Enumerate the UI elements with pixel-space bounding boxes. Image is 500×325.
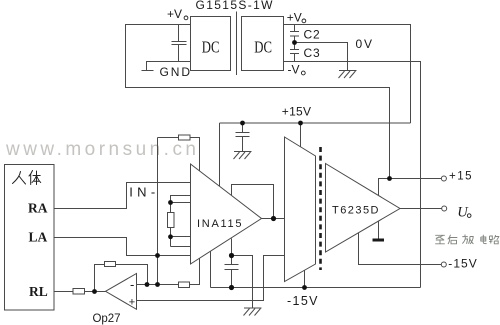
svg-text:+15V: +15V bbox=[282, 105, 311, 119]
wire REF pin down through resistor to op27 minus bbox=[190, 259, 200, 285]
capacitor decoupling stems bbox=[242, 123, 244, 152]
wire iso-ground tap to bottom rail bbox=[210, 252, 212, 288]
wire RL line bbox=[55, 291, 106, 293]
resistor REF bbox=[179, 282, 190, 288]
svg-text:GND: GND bbox=[160, 65, 191, 79]
svg-text:-15V: -15V bbox=[448, 257, 477, 271]
svg-text:U: U bbox=[457, 204, 469, 220]
capacitor C1 plates bbox=[172, 42, 187, 45]
node output cap top bbox=[229, 253, 234, 258]
resistor RL bbox=[73, 289, 85, 295]
wire +15V rail bbox=[220, 122, 411, 124]
wire INA115 output to trapezoid bbox=[262, 218, 285, 220]
node RL / op27 output bbox=[92, 289, 97, 294]
node LA / IN- vertical bbox=[155, 253, 160, 258]
resistor feedback top bbox=[179, 135, 191, 140]
svg-text:+V: +V bbox=[287, 10, 302, 24]
svg-text:LA: LA bbox=[29, 230, 48, 245]
wire trapezoid V+ supply pin bbox=[300, 123, 302, 147]
svg-text:C3: C3 bbox=[304, 46, 321, 60]
ground hatched (0V) bbox=[339, 71, 357, 79]
svg-text:RA: RA bbox=[28, 201, 48, 216]
svg-text:-15V: -15V bbox=[287, 294, 318, 308]
wire T6235D +15 supply line bbox=[379, 179, 442, 196]
wire long vertical IN- net bbox=[157, 138, 159, 285]
node trapezoid -V / rail bbox=[302, 285, 307, 290]
wire DC2 +Vo output to right and down to +15V rail bbox=[284, 25, 411, 124]
dashed isolation barrier bbox=[319, 147, 322, 270]
node minus line / feedback bbox=[145, 282, 150, 287]
svg-text:DC: DC bbox=[202, 39, 220, 57]
svg-text:www.mornsun.cn: www.mornsun.cn bbox=[5, 139, 196, 160]
isolation trapezoid bbox=[285, 137, 316, 282]
capacitor C1 input cap stems bbox=[178, 25, 180, 62]
label 至后放电路 (hand strokes) bbox=[435, 235, 499, 245]
node INA output / sense bbox=[271, 216, 276, 221]
wire feedback top rail with resistor bbox=[158, 138, 200, 172]
wire RA to IN- pin bbox=[55, 183, 191, 209]
svg-text:-: - bbox=[130, 277, 134, 292]
svg-text:IN-: IN- bbox=[129, 184, 155, 199]
wire bottom iso rail bbox=[211, 287, 421, 289]
wire op27 minus line bbox=[137, 284, 179, 286]
ground hatched (iso) bbox=[244, 308, 262, 316]
node minus line / IN- vertical bbox=[155, 282, 160, 287]
node rail trapezoid supply bbox=[298, 121, 303, 126]
wire INA115 V+ supply pin bbox=[219, 123, 221, 187]
wire T6235D output Uo bbox=[400, 208, 442, 210]
node RG top bbox=[168, 200, 173, 205]
后 bbox=[448, 235, 458, 244]
DC converter box 1 bbox=[191, 17, 231, 71]
ground bar T6235D (solid) bbox=[373, 239, 385, 242]
wire 0V from C2/C3 midpoint to ground bbox=[295, 43, 348, 71]
wire +V input loop (DC1 +Vo left, down, across, down to +15 node) bbox=[126, 25, 390, 179]
至 bbox=[435, 235, 445, 244]
wire RG top stubs bbox=[171, 196, 191, 203]
node C2/C3 midpoint bbox=[292, 40, 297, 45]
wire sense feedback loop bbox=[232, 185, 274, 219]
capacitor C3 plates bbox=[290, 50, 299, 54]
wire cap top to ground stem bbox=[232, 256, 253, 309]
wire T6235D -15V line bbox=[359, 233, 442, 265]
op-amp Op27 triangle bbox=[106, 274, 137, 310]
svg-text:C2: C2 bbox=[304, 28, 321, 42]
svg-text:Op27: Op27 bbox=[93, 313, 121, 325]
terminal +15 bbox=[441, 176, 446, 181]
node output cap bottom / rail bbox=[229, 285, 234, 290]
ground GND bar bbox=[142, 70, 154, 72]
wire GND lead of DC1 bbox=[147, 62, 191, 71]
放 bbox=[462, 235, 473, 244]
capacitor decoupling plates bbox=[236, 133, 250, 137]
svg-text:G1515S-1W: G1515S-1W bbox=[196, 0, 274, 12]
wire RG stems bbox=[170, 203, 172, 247]
路 bbox=[489, 235, 499, 244]
svg-text:RL: RL bbox=[29, 284, 48, 299]
wire DC2 -Vo output to right and down to -15V iso rail bbox=[284, 62, 421, 288]
op-amp T6235D triangle bbox=[326, 164, 401, 253]
svg-text:-V: -V bbox=[288, 62, 300, 76]
human body box 人体 bbox=[5, 165, 55, 311]
terminal circles bbox=[441, 176, 446, 267]
capacitor C2 plates bbox=[290, 32, 299, 37]
svg-text:+V: +V bbox=[167, 7, 182, 21]
node +15 line bbox=[387, 176, 392, 181]
wire op27 feedback loop with resistor bbox=[95, 265, 148, 292]
wire RG bottom stubs bbox=[171, 237, 191, 247]
svg-text:DC: DC bbox=[254, 39, 272, 57]
node RG bottom bbox=[168, 234, 173, 239]
电 bbox=[481, 235, 487, 244]
svg-text:+15: +15 bbox=[449, 171, 472, 183]
wire trapezoid -V pin bbox=[304, 270, 306, 288]
wire op27 plus line to trapezoid bbox=[137, 256, 285, 301]
DC converter box 2 bbox=[242, 17, 284, 71]
svg-text:0V: 0V bbox=[356, 37, 373, 51]
wire LA to IN+ pin bbox=[55, 238, 191, 256]
svg-text:+: + bbox=[129, 296, 135, 308]
terminal -15V bbox=[441, 262, 446, 267]
op-amp INA115 triangle bbox=[191, 164, 262, 264]
node rail decoupling cap bbox=[240, 121, 245, 126]
capacitor C2 stems bbox=[294, 25, 296, 43]
capacitor output filter plates bbox=[225, 265, 239, 270]
wire output cap tap bbox=[231, 239, 233, 256]
terminal Uo bbox=[442, 206, 447, 211]
ground hatched (decoupling) bbox=[234, 152, 252, 160]
capacitor C3 stems bbox=[294, 43, 296, 62]
transformer bar bbox=[236, 12, 238, 76]
ground bar T6235D stem bbox=[378, 222, 380, 239]
resistor RG bbox=[168, 213, 175, 228]
capacitor output filter stems bbox=[231, 256, 233, 288]
label 人体 (hand strokes) bbox=[13, 171, 41, 185]
resistor op27 feedback bbox=[105, 262, 116, 267]
